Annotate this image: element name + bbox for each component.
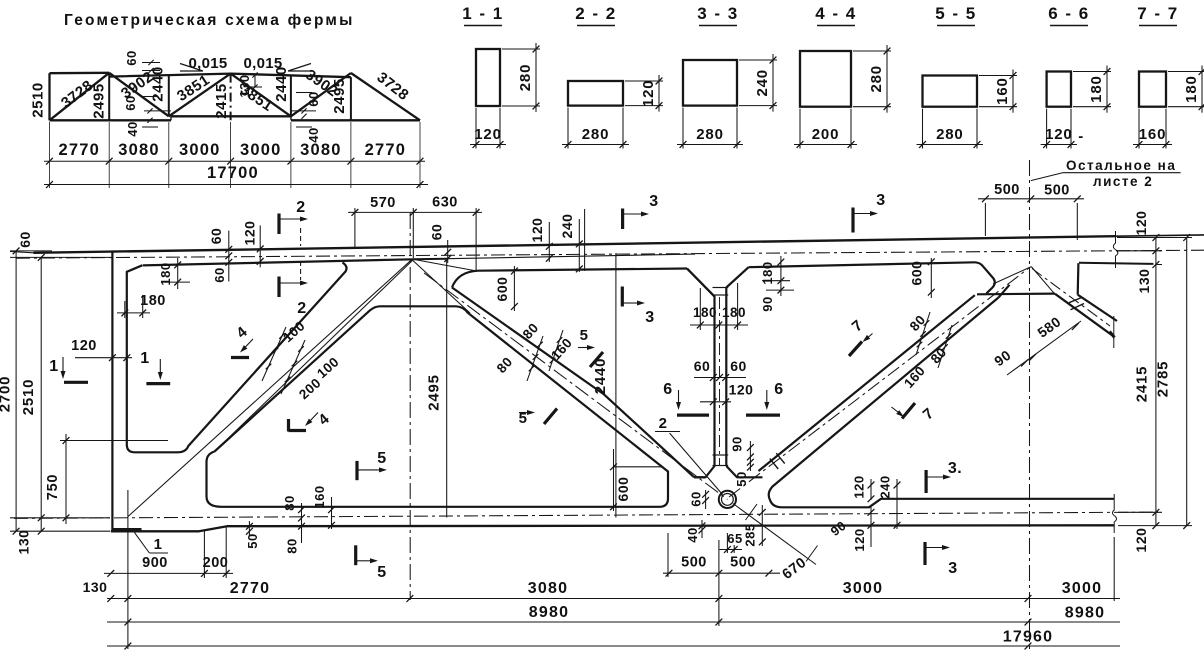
bottom chord axis <box>14 512 1158 518</box>
end post outer edge <box>111 252 113 532</box>
svg-text:285: 285 <box>743 523 758 546</box>
section mark 6 <box>678 390 680 403</box>
opening 1 outline <box>127 262 347 452</box>
scheme thin offset lines at bottom steps <box>144 110 171 112</box>
section 2 - 2: height dim 120 <box>625 80 663 82</box>
dims 180/180 at node 2 <box>699 288 701 330</box>
section 1 - 1: width dim 120 <box>475 108 477 149</box>
node 3 apex fan lines <box>993 267 1031 284</box>
section 3 - 3: outline <box>683 60 737 106</box>
svg-text:3: 3 <box>948 560 957 577</box>
svg-text:2415: 2415 <box>1134 366 1151 403</box>
svg-text:60: 60 <box>208 228 224 245</box>
dim 180 horizontal at top left node <box>124 301 126 318</box>
bottom 500/500 dims <box>663 572 780 574</box>
svg-text:5: 5 <box>377 450 386 467</box>
svg-text:5: 5 <box>519 410 528 427</box>
section 3 - 3: height dim 240 <box>739 59 777 61</box>
section 4 - 4: width dim 200 <box>799 109 801 149</box>
diagonal 4 cut end <box>1113 316 1115 348</box>
svg-text:500: 500 <box>994 182 1020 198</box>
dim 600 bottom left of node 2 <box>613 449 615 511</box>
dim 750 left <box>60 440 168 442</box>
node 1 extension line <box>409 213 411 600</box>
svg-text:120: 120 <box>729 382 754 398</box>
svg-text:50: 50 <box>734 471 749 486</box>
diagonal 1 axis <box>128 260 412 517</box>
top chord: bottom edge over opening 2 <box>478 269 687 271</box>
section 2-2 cut line <box>300 228 302 246</box>
svg-text:1: 1 <box>49 358 58 375</box>
svg-text:120: 120 <box>474 126 501 143</box>
section 5 - 5: width dim 280 <box>922 109 924 149</box>
svg-text:90: 90 <box>730 436 745 451</box>
bottom dim row 2 (8980) <box>107 621 1120 623</box>
section mark 7 upper <box>849 342 862 357</box>
diagonal 4 axis <box>1032 269 1110 327</box>
svg-text:80: 80 <box>282 495 297 510</box>
section 5 - 5: height dim 160 <box>979 75 1017 77</box>
dims 60/60 at hanger <box>694 377 746 379</box>
svg-text:5 - 5: 5 - 5 <box>935 4 977 23</box>
diagonal 2 axis extension below node <box>733 504 816 565</box>
section mark 1 <box>62 357 64 372</box>
svg-text:240: 240 <box>878 475 893 498</box>
svg-text:120: 120 <box>529 218 545 243</box>
svg-text:-: - <box>1078 128 1084 145</box>
svg-text:2495: 2495 <box>426 374 443 411</box>
svg-text:2770: 2770 <box>230 580 270 597</box>
scheme diagonal 3851 left <box>169 74 231 117</box>
scheme diagonal 3902 left <box>109 73 169 117</box>
hanger bottom right vute + node ledge right <box>726 466 762 477</box>
svg-text:2770: 2770 <box>365 141 407 159</box>
opening 2 outline <box>452 269 715 478</box>
svg-text:3080: 3080 <box>300 141 342 159</box>
dim 120 hanger width <box>700 401 731 403</box>
svg-text:120: 120 <box>1133 528 1149 553</box>
hanger right edge <box>725 288 727 467</box>
chord end extension down <box>1113 537 1115 601</box>
section 7 - 7: height dim 180 <box>1168 71 1204 73</box>
svg-text:1 - 1: 1 - 1 <box>462 4 504 23</box>
bottom dim row 3 (17960) <box>107 645 1120 647</box>
section 5 - 5: outline <box>923 76 978 107</box>
svg-text:130: 130 <box>83 579 108 595</box>
section 3-3 cut extension line <box>584 209 586 271</box>
section mark 2 <box>277 277 280 298</box>
dims 60/120/60 on top chord left <box>228 231 230 282</box>
section mark 5 on diagonal lower <box>544 409 557 425</box>
svg-text:200: 200 <box>812 126 839 143</box>
svg-text:2770: 2770 <box>59 141 101 159</box>
svg-text:280: 280 <box>696 126 723 143</box>
svg-text:60: 60 <box>689 491 704 506</box>
svg-text:8980: 8980 <box>1065 605 1105 622</box>
section mark 3 <box>621 209 624 230</box>
svg-text:630: 630 <box>432 195 458 211</box>
svg-text:40: 40 <box>125 121 140 136</box>
section mark 2 <box>277 214 280 235</box>
svg-text:3: 3 <box>645 309 654 326</box>
dims 120/240/120 bottom chord right <box>870 479 872 500</box>
svg-text:240: 240 <box>754 69 771 96</box>
svg-text:600: 600 <box>494 277 510 302</box>
svg-text:120: 120 <box>852 528 867 551</box>
svg-text:3080: 3080 <box>528 580 568 597</box>
svg-text:280: 280 <box>868 65 885 92</box>
svg-text:280: 280 <box>517 64 534 91</box>
node 3 V chamfer <box>999 285 1010 298</box>
node 3 left vute <box>975 262 995 293</box>
svg-text:180: 180 <box>1183 75 1200 102</box>
svg-text:130: 130 <box>237 74 252 97</box>
section mark 3 <box>621 287 624 307</box>
node 3 right vute (vertical) <box>1077 263 1080 295</box>
svg-text:2495: 2495 <box>91 83 108 118</box>
svg-text:60: 60 <box>694 358 711 374</box>
svg-text:180: 180 <box>140 293 166 309</box>
svg-text:180: 180 <box>1088 75 1105 102</box>
svg-text:160: 160 <box>312 485 327 508</box>
svg-text:120: 120 <box>242 221 258 246</box>
scheme diagonal 3728 left <box>50 73 110 121</box>
dim 120 end post <box>75 357 132 359</box>
svg-text:180: 180 <box>722 305 746 320</box>
svg-text:60: 60 <box>429 224 445 241</box>
dims 120/240 mid top chord <box>548 222 550 262</box>
support axis extension <box>127 490 129 649</box>
section mark 7 lower <box>902 403 915 419</box>
section 3 - 3: width dim 280 <box>682 108 684 149</box>
dim 60 at x=448 <box>447 240 449 263</box>
svg-text:7 - 7: 7 - 7 <box>1137 4 1179 23</box>
svg-text:60: 60 <box>730 358 747 374</box>
top chord: bottom edge right of node 3 <box>1079 263 1153 264</box>
svg-text:2: 2 <box>659 415 668 432</box>
top 500/500 dims <box>984 203 986 236</box>
hanger extension down <box>718 540 720 626</box>
svg-text:2510: 2510 <box>20 379 37 416</box>
svg-text:3 - 3: 3 - 3 <box>697 4 739 23</box>
dims 100/100/200 on diagonal 1 <box>262 327 286 381</box>
section mark 4 lower <box>289 429 307 432</box>
section mark 5 <box>355 461 358 480</box>
svg-text:3000: 3000 <box>1062 580 1102 597</box>
section 1 - 1: height dim 280 <box>502 48 540 50</box>
scheme truss: top chord <box>50 73 351 77</box>
dims 80/80/160 on diagonal 3 <box>916 312 930 355</box>
dims 180/90 right of node 2 <box>780 256 782 296</box>
svg-text:Геометрическая схема фермы: Геометрическая схема фермы <box>64 12 355 29</box>
svg-text:Остальное на: Остальное на <box>1066 158 1176 173</box>
svg-text:160: 160 <box>1139 126 1166 143</box>
svg-text:0,015: 0,015 <box>188 55 227 72</box>
svg-text:2510: 2510 <box>30 82 47 117</box>
section mark 3 <box>923 542 926 565</box>
node 1 vute thin fan lines <box>413 259 476 271</box>
dims 90/50 at hanger bottom <box>749 441 751 471</box>
svg-text:листе 2: листе 2 <box>1093 174 1153 189</box>
svg-text:120: 120 <box>71 338 97 354</box>
svg-text:180: 180 <box>760 261 775 284</box>
svg-text:60: 60 <box>212 267 227 282</box>
svg-text:130: 130 <box>16 530 32 555</box>
dim 570/630 <box>354 208 356 247</box>
svg-text:2415: 2415 <box>213 83 230 118</box>
opening 3 corner extension down <box>667 533 669 577</box>
svg-text:2 - 2: 2 - 2 <box>575 4 617 23</box>
svg-text:120: 120 <box>1045 126 1072 143</box>
node 3 / midline long extension <box>1029 160 1031 649</box>
scheme truss: left end vertical (2510) <box>48 73 50 120</box>
hanger transverse joint marks top <box>713 287 729 289</box>
top chord: axis (dash-dot) <box>16 250 1204 258</box>
svg-text:500: 500 <box>730 555 756 571</box>
svg-text:240: 240 <box>559 214 575 239</box>
svg-text:2700: 2700 <box>0 376 14 413</box>
svg-text:180: 180 <box>693 305 717 320</box>
svg-text:2495: 2495 <box>331 78 348 113</box>
scheme diagonal 3851 right <box>231 74 291 117</box>
dims 60/40/65/285 at central node <box>705 490 707 509</box>
diagonal 2 upper edge <box>452 288 694 478</box>
diagonal 4 lower-left edge <box>1055 294 1112 335</box>
svg-text:90: 90 <box>760 296 775 311</box>
section mark 5 on diagonal upper <box>590 352 603 367</box>
node ledge left <box>694 476 706 478</box>
svg-text:50: 50 <box>245 533 260 548</box>
dims 80/80/160 on diagonal 2 <box>527 336 543 381</box>
bottom chord top edge (mid panels) <box>782 499 1114 508</box>
section 6 - 6: width dim 120 <box>1046 109 1048 149</box>
bottom dim row 1 <box>107 598 1120 600</box>
dim 180 vertical at top left node <box>160 264 186 266</box>
top chord: top edge <box>34 236 1116 253</box>
svg-text:570: 570 <box>370 195 396 211</box>
svg-text:3000: 3000 <box>843 580 883 597</box>
svg-text:600: 600 <box>615 477 631 502</box>
diagonal 4 upper-right edge <box>1078 295 1117 321</box>
svg-text:280: 280 <box>582 126 609 143</box>
node circle (hole) <box>719 491 736 508</box>
diagonal 3 upper edge <box>759 295 975 471</box>
svg-text:17700: 17700 <box>207 164 259 182</box>
section mark 3 <box>924 470 927 493</box>
section mark 6 <box>766 390 768 403</box>
dims 900/200 <box>203 530 205 578</box>
svg-text:200: 200 <box>203 555 229 571</box>
hanger axis <box>719 297 721 466</box>
leader 2 to node circle <box>670 433 723 495</box>
svg-text:80: 80 <box>285 538 300 553</box>
diagonal 1 lower edge + node1 underside + opening 3 outline <box>207 306 669 507</box>
svg-text:120: 120 <box>852 475 867 498</box>
svg-text:600: 600 <box>909 261 925 286</box>
section 2 - 2: width dim 280 <box>567 108 569 149</box>
svg-text:3: 3 <box>649 193 658 210</box>
svg-text:65: 65 <box>727 531 742 546</box>
svg-text:60: 60 <box>17 231 33 248</box>
section 4 - 4: height dim 280 <box>853 50 891 52</box>
svg-text:500: 500 <box>1044 183 1070 199</box>
svg-text:900: 900 <box>142 555 168 571</box>
dim 600 at node 3 left <box>930 258 932 298</box>
top chord break squiggle <box>1113 231 1118 268</box>
svg-text:3: 3 <box>876 192 885 209</box>
svg-text:2785: 2785 <box>1155 361 1172 398</box>
svg-text:17960: 17960 <box>1003 629 1054 646</box>
svg-text:60: 60 <box>123 95 138 110</box>
section 2 - 2: outline <box>568 81 623 106</box>
section 7 - 7: outline <box>1139 72 1166 107</box>
scheme diagonal 3728 right <box>351 73 420 120</box>
dims 120/130/2415/2785 right edge <box>1117 237 1192 239</box>
svg-text:6: 6 <box>663 381 672 398</box>
svg-text:5: 5 <box>580 327 589 344</box>
bottom chord bottom edge <box>111 525 1114 531</box>
svg-text:1: 1 <box>140 350 149 367</box>
section 6 - 6: height dim 180 <box>1073 71 1111 73</box>
svg-text:120: 120 <box>1133 211 1149 236</box>
diagonal 3 break ticks <box>770 459 778 469</box>
left height dims 2700/2510/60/130 <box>15 251 17 531</box>
dim 600 at node1 right <box>513 266 515 311</box>
scheme truss: bottom chord <box>50 116 421 120</box>
svg-text:40: 40 <box>685 527 700 542</box>
svg-text:5: 5 <box>377 564 386 581</box>
svg-text:2: 2 <box>297 300 306 317</box>
svg-text:8980: 8980 <box>529 604 569 621</box>
svg-text:6 - 6: 6 - 6 <box>1048 4 1090 23</box>
section mark 5 <box>354 545 357 565</box>
section mark 1 <box>159 359 161 373</box>
svg-text:60: 60 <box>124 50 139 65</box>
leader 1 to bearing plate <box>135 533 150 553</box>
scheme diagonal 3902 right <box>291 73 351 116</box>
diagonal 3 axis <box>729 268 1029 497</box>
node 3 underside <box>977 293 1055 296</box>
svg-text:3080: 3080 <box>118 141 160 159</box>
svg-text:3000: 3000 <box>179 141 221 159</box>
svg-text:160: 160 <box>994 77 1011 104</box>
dims 50/80/160/80 bottom chord left <box>248 521 250 536</box>
svg-text:120: 120 <box>640 80 657 107</box>
diagonal 3 lower edge + opening D corner <box>769 298 999 508</box>
section mark 4 upper <box>231 356 249 359</box>
node 2 left vute <box>687 269 715 297</box>
svg-text:3.: 3. <box>948 460 962 477</box>
svg-text:2440: 2440 <box>273 66 290 101</box>
scheme vertical posts <box>108 73 110 121</box>
bearing plate <box>112 528 142 532</box>
svg-text:500: 500 <box>681 555 707 571</box>
svg-text:60: 60 <box>306 91 321 106</box>
diagonal 2 axis <box>424 273 727 500</box>
dim 2495 <box>446 260 448 518</box>
dims 90/580 at node 3 <box>1007 321 1081 375</box>
section 4 - 4: outline <box>800 51 851 107</box>
svg-text:2: 2 <box>296 199 305 216</box>
diagonal 4 break ticks <box>1069 297 1083 303</box>
section mark 3 <box>851 208 854 233</box>
dim 2440 <box>615 253 617 518</box>
top chord: bottom edge left panel <box>143 259 413 265</box>
section 7 - 7: width dim 160 <box>1138 109 1140 149</box>
hanger transverse joint marks bottom <box>713 454 729 456</box>
svg-text:1: 1 <box>154 536 163 553</box>
top chord mid line (120-level) <box>413 258 447 261</box>
svg-text:750: 750 <box>45 474 61 501</box>
svg-text:3000: 3000 <box>240 141 282 159</box>
svg-text:180: 180 <box>158 262 173 285</box>
svg-text:6: 6 <box>774 381 783 398</box>
top chord: bottom edge over opening 4 <box>749 262 975 267</box>
svg-text:280: 280 <box>936 126 963 143</box>
section 6 - 6: outline <box>1047 72 1071 107</box>
section 1 - 1: outline <box>476 49 500 106</box>
bottom chord cut line at midspan <box>1112 494 1116 533</box>
svg-text:4 - 4: 4 - 4 <box>815 4 857 23</box>
svg-text:130: 130 <box>1136 269 1152 294</box>
node 2 right vute <box>726 267 748 287</box>
